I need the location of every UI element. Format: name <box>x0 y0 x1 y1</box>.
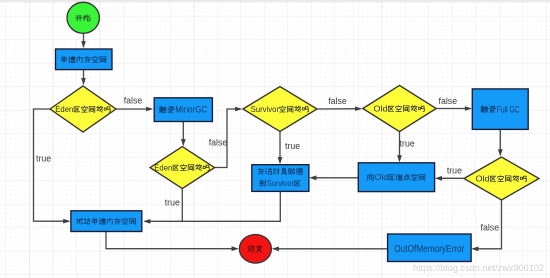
svg-text:MinorGC: MinorGC <box>175 105 207 115</box>
svg-text:Survivor: Survivor <box>267 179 294 188</box>
svg-text:https://blog.csdn.net/zwx90010: https://blog.csdn.net/zwx900102 <box>413 263 544 274</box>
wire survivor true to cunhuo <box>278 131 283 164</box>
label true old2 <box>447 166 462 176</box>
wire minorgc to eden2 <box>181 122 186 147</box>
svg-text:Old: Old <box>375 172 389 182</box>
diamond survivor kongjian goumma <box>243 87 317 132</box>
svg-text:false: false <box>209 137 228 147</box>
wire old2 false to oom <box>471 200 501 251</box>
rect xiang old qu jiedian kongjian <box>358 163 434 192</box>
label false old2 <box>481 222 500 232</box>
rect cunhuo duixiang fuzhi <box>252 165 309 192</box>
wire chenggong to end <box>106 232 239 252</box>
label true eden2 <box>165 198 180 208</box>
label false eden1 <box>124 96 143 106</box>
rect chufa Full GC <box>472 89 528 129</box>
diamond eden2 kongjian goumma <box>150 147 215 189</box>
start ellipse kaishi <box>67 2 99 33</box>
svg-text:false: false <box>328 96 347 106</box>
svg-text:Survivor: Survivor <box>251 104 280 114</box>
label true survivor <box>285 141 300 151</box>
wire xiangold to cunhuo <box>309 176 358 181</box>
wire old1 false to fullgc <box>436 106 472 111</box>
svg-text:false: false <box>439 96 458 106</box>
wire old2 true to xiangold <box>435 176 464 181</box>
wire fullgc to old2 <box>498 130 503 157</box>
svg-text:false: false <box>124 96 143 106</box>
wire old1 true to xiangold <box>397 132 402 163</box>
svg-text:Old: Old <box>476 174 490 184</box>
svg-text:Old: Old <box>374 104 388 114</box>
label false old1 <box>439 96 458 106</box>
wire cunhuo bottom junction <box>182 192 280 222</box>
label true old1 <box>400 138 415 148</box>
svg-text:Full GC: Full GC <box>497 104 520 114</box>
wire eden2 true to chenggong <box>143 189 182 224</box>
wire eden2 false to survivor <box>215 107 243 168</box>
svg-text:Eden: Eden <box>154 163 172 173</box>
svg-text:true: true <box>447 166 462 176</box>
rect chenggong shenqing <box>71 211 142 232</box>
wire oom to end <box>272 247 388 252</box>
label false eden2 <box>209 137 228 147</box>
svg-text:true: true <box>36 153 51 163</box>
end ellipse jieshu <box>239 235 271 264</box>
wire shenqing to eden1 <box>81 70 86 86</box>
svg-text:Eden: Eden <box>55 104 73 114</box>
label true left <box>36 153 51 163</box>
diamond old1 kongjian goumma <box>363 85 436 131</box>
wire eden1 false to minorgc <box>116 107 153 112</box>
rect shenqing neicun kongjian <box>56 49 113 70</box>
diamond eden1 kongjian goumma <box>50 86 116 132</box>
wire start to shenqing <box>81 34 86 49</box>
svg-text:OutOfMemoryError: OutOfMemoryError <box>394 244 465 255</box>
svg-text:true: true <box>285 141 300 151</box>
svg-text:true: true <box>400 138 415 148</box>
diamond old2 kongjian goumma <box>464 157 539 200</box>
watermark csdn <box>413 263 544 274</box>
wire survivor false to old1 <box>317 106 362 111</box>
rect OutOfMemoryError <box>388 234 472 262</box>
wire left true branch <box>34 109 71 224</box>
label false survivor <box>328 96 347 106</box>
svg-text:false: false <box>481 222 500 232</box>
rect chufa MinorGC <box>154 98 212 122</box>
svg-text:true: true <box>165 198 180 208</box>
